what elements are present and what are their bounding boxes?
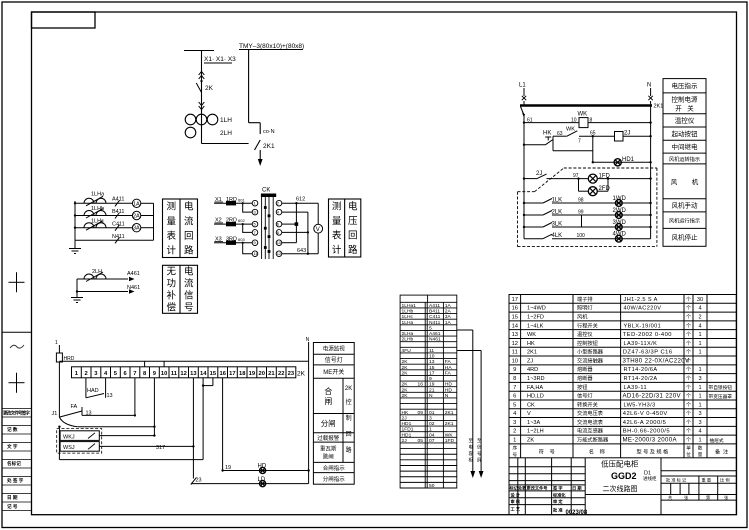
svg-text:行程开关: 行程开关 [577, 321, 598, 329]
svg-text:FA,HA: FA,HA [527, 385, 543, 391]
svg-text:第: 第 [706, 494, 710, 501]
svg-text:A461: A461 [127, 271, 140, 277]
svg-text:柜: 柜 [469, 457, 474, 464]
svg-text:1~2FD: 1~2FD [527, 315, 544, 321]
svg-text:05: 05 [418, 438, 424, 444]
svg-text:ZK: ZK [527, 438, 534, 444]
svg-text:65: 65 [590, 131, 596, 137]
svg-text:合: 合 [324, 386, 332, 396]
svg-text:批 准 标 记: 批 准 标 记 [666, 477, 687, 484]
svg-text:4WD: 4WD [613, 232, 627, 238]
svg-text:审 核: 审 核 [511, 498, 521, 505]
svg-text:个: 个 [686, 411, 691, 417]
svg-text:个: 个 [686, 297, 691, 303]
svg-text:LA39-11X/K: LA39-11X/K [624, 341, 658, 347]
svg-text:63: 63 [557, 131, 563, 137]
svg-text:个: 个 [686, 332, 691, 338]
svg-text:抽屉式: 抽屉式 [710, 437, 724, 444]
svg-text:1A: 1A [133, 201, 140, 207]
svg-text:9: 9 [429, 376, 432, 382]
svg-text:计: 计 [332, 244, 342, 256]
svg-text:10: 10 [512, 358, 518, 364]
svg-text:2K: 2K [402, 393, 409, 399]
svg-text:V: V [527, 411, 531, 417]
svg-text:按钮: 按钮 [577, 383, 587, 391]
svg-text:23: 23 [288, 371, 295, 377]
svg-text:共: 共 [668, 494, 672, 501]
svg-text:A461: A461 [429, 331, 441, 337]
svg-text:V: V [316, 227, 320, 233]
svg-text:1: 1 [698, 367, 701, 373]
svg-text:3: 3 [513, 420, 516, 426]
svg-text:2K: 2K [402, 387, 409, 393]
svg-text:压: 压 [348, 216, 358, 227]
svg-text:1LH: 1LH [220, 117, 232, 124]
svg-text:HRD: HRD [64, 356, 75, 362]
svg-text:补: 补 [166, 290, 176, 302]
svg-text:重 量: 重 量 [702, 477, 712, 484]
svg-text:1LHb: 1LHb [91, 206, 104, 212]
svg-text:2K1: 2K1 [263, 143, 275, 150]
svg-text:1: 1 [698, 332, 701, 338]
svg-text:19: 19 [429, 382, 435, 388]
svg-text:02: 02 [429, 421, 435, 427]
svg-text:2J: 2J [402, 438, 408, 444]
svg-text:2: 2 [513, 429, 516, 435]
svg-text:处 签 字: 处 签 字 [6, 477, 24, 484]
svg-text:B411: B411 [429, 309, 440, 315]
svg-text:13: 13 [107, 393, 113, 399]
svg-text:12: 12 [512, 341, 518, 347]
svg-text:1A: 1A [445, 320, 452, 326]
svg-text:18: 18 [239, 371, 246, 377]
svg-text:11: 11 [512, 350, 518, 356]
svg-text:个: 个 [686, 385, 691, 391]
svg-text:电: 电 [469, 444, 474, 450]
svg-text:N461: N461 [127, 285, 140, 291]
svg-text:TMY–3(80x10)+(80x8): TMY–3(80x10)+(80x8) [239, 43, 304, 50]
svg-text:个: 个 [686, 315, 691, 321]
svg-text:比 例: 比 例 [720, 477, 730, 484]
svg-text:FA: FA [71, 404, 78, 410]
svg-text:LD: LD [258, 477, 266, 483]
svg-text:路: 路 [184, 245, 194, 257]
svg-text:15: 15 [210, 371, 217, 377]
svg-text:1: 1 [698, 402, 701, 408]
svg-text:HD: HD [445, 387, 453, 393]
svg-text:317: 317 [156, 445, 165, 451]
svg-text:日 期: 日 期 [7, 494, 18, 501]
svg-text:N: N [647, 83, 651, 89]
svg-text:过载报警: 过载报警 [317, 434, 340, 442]
svg-text:表: 表 [166, 230, 176, 242]
svg-text:标准化: 标准化 [552, 491, 566, 498]
svg-text:机: 机 [692, 177, 699, 186]
svg-text:路: 路 [346, 446, 352, 454]
svg-text:文 字: 文 字 [7, 443, 18, 450]
svg-text:符 号: 符 号 [539, 448, 555, 456]
svg-text:量: 量 [332, 216, 342, 227]
svg-text:4: 4 [698, 429, 701, 435]
svg-text:7: 7 [513, 385, 516, 391]
svg-text:AD16-22D/31 220V: AD16-22D/31 220V [623, 393, 682, 400]
svg-text:风: 风 [671, 178, 678, 186]
svg-text:30: 30 [697, 297, 703, 303]
svg-text:9: 9 [513, 367, 516, 373]
svg-text:10: 10 [429, 354, 435, 360]
svg-text:1FD1: 1FD1 [402, 427, 414, 433]
svg-text:号: 号 [184, 303, 194, 314]
svg-text:个: 个 [686, 376, 691, 382]
svg-text:2K: 2K [402, 359, 409, 365]
svg-text:WKJ: WKJ [63, 434, 75, 440]
svg-text:07: 07 [429, 438, 435, 444]
svg-text:制: 制 [346, 414, 352, 422]
svg-text:工 艺: 工 艺 [511, 505, 521, 512]
svg-text:16: 16 [418, 382, 424, 388]
svg-text:HK: HK [527, 341, 535, 347]
svg-text:个: 个 [686, 420, 691, 426]
svg-text:10: 10 [161, 371, 167, 377]
svg-text:15: 15 [429, 365, 435, 371]
svg-text:612: 612 [296, 197, 305, 203]
svg-text:61: 61 [527, 118, 533, 124]
svg-text:N411: N411 [112, 234, 125, 240]
svg-text:熔断器: 熔断器 [577, 365, 593, 373]
svg-text:2K: 2K [402, 382, 409, 388]
svg-text:更改文件号: 更改文件号 [527, 484, 548, 491]
svg-text:4FU: 4FU [402, 348, 412, 354]
svg-text:合闸指示: 合闸指示 [323, 464, 346, 472]
svg-text:个: 个 [686, 438, 691, 444]
svg-text:A411: A411 [429, 303, 440, 309]
svg-text:2J: 2J [624, 131, 630, 137]
svg-text:记 数: 记 数 [7, 426, 18, 433]
svg-text:1~3RD: 1~3RD [527, 376, 545, 382]
svg-text:万能式断路器: 万能式断路器 [577, 436, 609, 444]
svg-text:单: 单 [686, 445, 691, 452]
svg-text:3: 3 [429, 416, 432, 422]
svg-text:回: 回 [348, 231, 358, 242]
svg-text:1LHc: 1LHc [402, 314, 414, 320]
svg-text:1~3A: 1~3A [527, 420, 540, 426]
svg-text:流: 流 [184, 215, 194, 227]
svg-text:1FD: 1FD [445, 438, 455, 444]
svg-text:跳闸: 跳闸 [323, 453, 334, 461]
svg-text:1WD: 1WD [613, 196, 627, 202]
svg-text:更改文件号签字: 更改文件号签字 [3, 410, 30, 417]
svg-text:HD: HD [445, 382, 453, 388]
svg-text:签 字: 签 字 [552, 484, 563, 491]
svg-text:名 称: 名 称 [589, 448, 605, 456]
svg-text:100: 100 [577, 233, 586, 239]
svg-text:TED-2002 0-400: TED-2002 0-400 [623, 332, 672, 338]
svg-text:熔断器: 熔断器 [577, 374, 593, 382]
svg-text:分闸: 分闸 [321, 419, 336, 428]
svg-text:B411: B411 [112, 209, 124, 215]
svg-text:10: 10 [571, 118, 577, 124]
svg-text:2A: 2A [445, 309, 452, 315]
svg-text:4: 4 [698, 323, 701, 329]
svg-text:HD1: HD1 [402, 432, 412, 438]
svg-text:信号灯: 信号灯 [577, 392, 593, 400]
svg-text:至: 至 [469, 438, 474, 443]
svg-text:16: 16 [219, 371, 226, 377]
svg-text:FA: FA [445, 370, 452, 376]
svg-text:1: 1 [429, 427, 432, 433]
svg-text:HD: HD [258, 463, 267, 469]
svg-text:2J: 2J [536, 171, 542, 177]
svg-text:WK: WK [566, 127, 575, 133]
svg-text:2K1: 2K1 [445, 421, 454, 427]
svg-text:风机停止: 风机停止 [672, 233, 699, 242]
svg-text:1: 1 [55, 340, 58, 346]
svg-text:LW5-YH3/3: LW5-YH3/3 [624, 402, 656, 408]
svg-text:1: 1 [698, 394, 701, 400]
svg-text:99: 99 [578, 210, 584, 216]
svg-text:5: 5 [429, 325, 432, 331]
svg-text:WSJ: WSJ [63, 445, 75, 451]
svg-text:2K1: 2K1 [445, 410, 454, 416]
svg-text:进线柜: 进线柜 [643, 475, 657, 482]
svg-text:个: 个 [686, 358, 691, 364]
svg-text:N411: N411 [429, 320, 441, 326]
svg-text:DZ47-63/3P C16: DZ47-63/3P C16 [623, 350, 673, 356]
svg-text:1~2LH: 1~2LH [527, 429, 544, 435]
svg-text:N: N [445, 393, 449, 399]
svg-text:中间继电: 中间继电 [672, 142, 699, 151]
svg-text:WK: WK [445, 432, 454, 438]
svg-text:23: 23 [196, 478, 202, 484]
svg-text:11: 11 [429, 348, 434, 354]
svg-text:1LHb: 1LHb [402, 309, 414, 315]
svg-text:2K1: 2K1 [654, 104, 664, 110]
svg-text:98: 98 [578, 198, 584, 204]
svg-text:01: 01 [429, 410, 435, 416]
svg-text:17: 17 [429, 370, 435, 376]
svg-text:20: 20 [258, 371, 264, 377]
svg-text:测: 测 [166, 202, 176, 213]
svg-text:HAD: HAD [87, 388, 99, 394]
svg-text:13: 13 [512, 332, 518, 338]
svg-text:信号灯: 信号灯 [325, 356, 343, 364]
svg-text:分闸指示: 分闸指示 [323, 475, 346, 483]
svg-text:19: 19 [225, 465, 231, 471]
svg-text:603: 603 [238, 237, 245, 242]
svg-text:2FD: 2FD [599, 186, 611, 192]
svg-text:1LHa1: 1LHa1 [402, 303, 417, 309]
svg-text:J1: J1 [52, 411, 58, 417]
svg-text:12: 12 [180, 371, 186, 377]
svg-text:2LH: 2LH [220, 130, 232, 137]
svg-text:交流接触器: 交流接触器 [577, 356, 604, 364]
svg-text:闸: 闸 [324, 397, 332, 406]
svg-text:端子排: 端子排 [577, 295, 593, 303]
svg-text:YBLX-19/001: YBLX-19/001 [624, 323, 662, 329]
svg-text:3LK: 3LK [552, 222, 563, 228]
svg-text:14: 14 [512, 323, 519, 329]
svg-text:控制电源: 控制电源 [672, 95, 699, 104]
svg-text:A411: A411 [112, 197, 124, 203]
svg-text:HK: HK [402, 410, 410, 416]
svg-text:2: 2 [698, 315, 701, 321]
svg-text:个: 个 [686, 341, 691, 347]
svg-text:名标记: 名标记 [7, 460, 21, 467]
svg-text:602: 602 [238, 218, 245, 223]
svg-text:WK: WK [527, 332, 536, 338]
svg-text:2K1: 2K1 [527, 350, 537, 356]
svg-text:LA39-11: LA39-11 [624, 385, 648, 391]
svg-text:2A: 2A [133, 214, 140, 220]
svg-text:至: 至 [477, 438, 482, 443]
svg-text:记 号: 记 号 [7, 503, 18, 510]
svg-text:2LHb: 2LHb [402, 337, 414, 343]
svg-text:小型断路器: 小型断路器 [577, 348, 604, 356]
svg-text:6: 6 [513, 394, 516, 400]
svg-text:17: 17 [229, 371, 235, 377]
svg-text:位: 位 [686, 451, 691, 457]
svg-text:17: 17 [512, 297, 518, 303]
svg-text:温控仪: 温控仪 [577, 330, 593, 338]
svg-text:2LHa: 2LHa [402, 331, 414, 337]
svg-text:信: 信 [184, 290, 194, 302]
svg-text:无: 无 [166, 267, 176, 278]
svg-text:7: 7 [578, 139, 581, 145]
svg-text:1LHc: 1LHc [91, 218, 104, 224]
svg-text:4: 4 [698, 306, 701, 312]
svg-text:ME-2000/3 2000A: ME-2000/3 2000A [623, 437, 678, 444]
svg-text:co·N: co·N [263, 129, 275, 135]
svg-text:10: 10 [277, 240, 282, 245]
svg-text:11: 11 [171, 371, 178, 377]
svg-text:个: 个 [686, 402, 691, 408]
svg-text:日 期: 日 期 [572, 484, 582, 491]
svg-text:3RD: 3RD [226, 236, 237, 242]
svg-text:起动按钮: 起动按钮 [672, 129, 699, 138]
svg-text:电: 电 [184, 266, 194, 278]
svg-text:643: 643 [297, 248, 306, 254]
svg-text:13: 13 [86, 411, 92, 417]
svg-text:16: 16 [512, 306, 518, 312]
svg-text:个: 个 [686, 306, 691, 312]
svg-text:19: 19 [249, 371, 256, 377]
svg-text:8: 8 [513, 376, 516, 382]
svg-text:601: 601 [238, 197, 245, 202]
svg-text:HA: HA [445, 365, 453, 371]
svg-text:1A: 1A [445, 303, 452, 309]
svg-text:序: 序 [512, 445, 517, 452]
svg-text:40W/AC220V: 40W/AC220V [624, 306, 662, 312]
svg-text:带变压器罩: 带变压器罩 [709, 393, 733, 400]
svg-text:计: 计 [166, 245, 176, 257]
svg-text:ZJ: ZJ [527, 358, 533, 364]
svg-text:HD,LD: HD,LD [527, 394, 544, 400]
svg-text:L1: L1 [519, 83, 526, 89]
svg-text:15: 15 [512, 315, 518, 321]
svg-text:N: N [306, 337, 310, 343]
svg-text:2K: 2K [345, 386, 352, 392]
svg-text:个: 个 [686, 367, 691, 373]
svg-text:低压配电柜: 低压配电柜 [601, 459, 639, 469]
svg-text:2LH: 2LH [92, 269, 102, 275]
svg-text:JH1-2.5 S A: JH1-2.5 S A [624, 297, 658, 303]
svg-text:4LK: 4LK [552, 233, 563, 239]
svg-text:7: 7 [133, 371, 136, 377]
svg-text:FA: FA [445, 359, 452, 365]
svg-text:22: 22 [278, 371, 284, 377]
svg-text:个: 个 [686, 429, 691, 435]
svg-text:WK: WK [578, 112, 588, 118]
svg-text:1: 1 [698, 341, 701, 347]
svg-text:21: 21 [429, 387, 435, 393]
svg-text:量: 量 [166, 216, 176, 227]
svg-text:备 注: 备 注 [715, 448, 728, 456]
svg-text:个: 个 [686, 394, 691, 400]
svg-text:交流电流表: 交流电流表 [577, 418, 604, 426]
svg-text:0023/08: 0023/08 [566, 510, 588, 516]
svg-text:3: 3 [698, 411, 701, 417]
svg-text:交流电压表: 交流电压表 [577, 409, 604, 417]
svg-text:控: 控 [346, 398, 352, 406]
svg-text:3A: 3A [133, 226, 140, 232]
svg-text:1: 1 [513, 438, 516, 444]
svg-text:1LHa: 1LHa [91, 192, 105, 198]
svg-text:C411: C411 [112, 221, 125, 227]
svg-text:功: 功 [166, 279, 176, 290]
svg-text:HD1: HD1 [622, 157, 635, 163]
svg-text:个: 个 [686, 323, 691, 329]
svg-text:电源监视: 电源监视 [323, 345, 346, 353]
svg-text:风机: 风机 [577, 313, 588, 321]
svg-text:风机手动: 风机手动 [672, 201, 699, 210]
svg-text:97: 97 [573, 173, 579, 179]
svg-text:2K: 2K [297, 370, 306, 377]
svg-text:2WD: 2WD [613, 208, 627, 214]
svg-text:21: 21 [268, 371, 275, 377]
svg-text:1: 1 [698, 350, 701, 356]
svg-text:GGD2: GGD2 [611, 471, 637, 481]
svg-text:1LK: 1LK [552, 198, 563, 204]
svg-text:ME开关: ME开关 [323, 368, 344, 376]
svg-text:偿: 偿 [166, 302, 176, 314]
svg-text:BH-0.66-2000/5: BH-0.66-2000/5 [623, 429, 670, 435]
svg-text:设 计: 设 计 [511, 491, 521, 498]
svg-text:型 号 及 规 格: 型 号 及 规 格 [636, 448, 669, 456]
svg-text:回: 回 [346, 431, 352, 438]
svg-text:RT14-20/2A: RT14-20/2A [624, 376, 658, 382]
svg-text:审 定: 审 定 [553, 498, 563, 505]
svg-text:1: 1 [698, 438, 701, 444]
svg-text:开 关: 开 关 [675, 104, 694, 113]
svg-text:3WD: 3WD [613, 220, 627, 226]
svg-text:50: 50 [429, 483, 435, 489]
svg-text:13: 13 [429, 359, 435, 365]
svg-text:HK: HK [543, 131, 551, 137]
svg-text:信: 信 [477, 444, 482, 451]
svg-text:3: 3 [698, 376, 701, 382]
svg-text:4RD: 4RD [527, 367, 538, 373]
svg-text:回: 回 [184, 231, 194, 242]
svg-text:二次线路图: 二次线路图 [603, 484, 638, 493]
svg-text:量: 量 [698, 451, 703, 458]
svg-text:温控仪: 温控仪 [675, 116, 695, 125]
svg-text:批 准: 批 准 [553, 507, 563, 514]
svg-text:风机运转指示: 风机运转指示 [669, 155, 700, 163]
svg-text:重瓦斯: 重瓦斯 [320, 445, 337, 453]
svg-text:1FD: 1FD [599, 174, 611, 180]
svg-text:12: 12 [277, 251, 282, 256]
svg-text:个: 个 [686, 350, 691, 356]
